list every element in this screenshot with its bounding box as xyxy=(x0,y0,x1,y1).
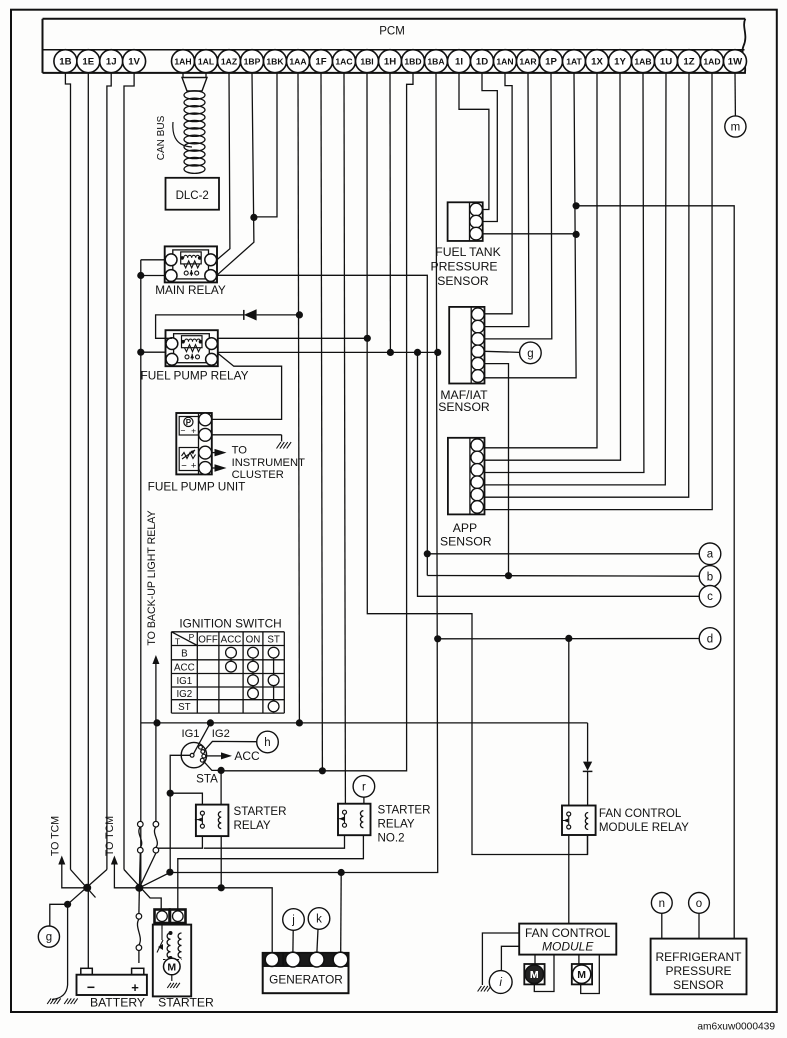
ignition switch contact (IG2/ON) xyxy=(248,688,259,699)
svg-text:SENSOR: SENSOR xyxy=(440,535,492,549)
svg-text:TO TCM: TO TCM xyxy=(50,816,62,856)
wire from pin 1P (to MAF pin3) xyxy=(485,73,552,339)
battery xyxy=(77,975,147,995)
svg-text:1BK: 1BK xyxy=(266,57,284,67)
fuel pump relay output to fuel pump unit xyxy=(212,353,282,419)
pump symbol P xyxy=(184,417,193,426)
relay coil feed from ignition bus via diode xyxy=(587,723,589,762)
starter relay no.2 xyxy=(338,804,371,836)
svg-text:1I: 1I xyxy=(455,57,463,68)
body ground drain xyxy=(67,904,69,985)
starter relay xyxy=(196,805,229,837)
svg-text:1AT: 1AT xyxy=(566,57,582,67)
node j (circled terminal) xyxy=(283,909,305,931)
svg-text:g: g xyxy=(46,932,52,944)
node h (circled terminal) xyxy=(257,731,279,753)
wire from pin 1BP (to main relay switch) xyxy=(217,73,254,275)
node k (circled terminal) xyxy=(308,908,330,930)
1B wire into X1 xyxy=(71,870,96,898)
svg-text:NO.2: NO.2 xyxy=(378,832,405,845)
IG2 line to terminal h xyxy=(204,741,257,750)
wire from pin 1E xyxy=(87,73,89,963)
wire from pin 1AR (to MAF pin2) xyxy=(485,73,529,327)
ignition switch contact (B/ST) xyxy=(268,647,279,658)
svg-text:STARTER: STARTER xyxy=(158,996,214,1010)
switch wiper from bus xyxy=(194,723,211,754)
starter relay switch feed xyxy=(170,793,202,804)
node n (circled terminal) xyxy=(651,893,672,914)
svg-text:DLC-2: DLC-2 xyxy=(176,190,209,202)
PCM pin 1W xyxy=(724,50,747,73)
fuel pump relay switch feed (left) xyxy=(141,351,166,353)
generator xyxy=(263,953,349,993)
PCM pin 1AL xyxy=(195,50,218,73)
svg-text:IG1: IG1 xyxy=(176,676,192,687)
bus continues into X2 xyxy=(139,853,142,884)
PCM pin 1E xyxy=(77,50,100,73)
svg-text:PRESSURE: PRESSURE xyxy=(665,964,731,978)
node b (circled terminal) xyxy=(699,566,721,588)
main fuse (bus) xyxy=(138,821,144,827)
wire from pin 1H xyxy=(389,73,391,353)
PCM pin 1BI xyxy=(356,50,379,73)
svg-text:1AC: 1AC xyxy=(335,57,352,67)
svg-text:TO BACK-UP LIGHT RELAY: TO BACK-UP LIGHT RELAY xyxy=(146,510,158,645)
svg-text:1W: 1W xyxy=(728,57,743,68)
PCM pin 1AA xyxy=(287,50,310,73)
node m (circled terminal) xyxy=(725,116,746,137)
svg-text:g: g xyxy=(527,348,533,360)
svg-text:ACC: ACC xyxy=(174,662,195,673)
wire from pin 1AL xyxy=(205,73,207,78)
PCM pin 1AN xyxy=(494,50,517,73)
svg-text:ACC: ACC xyxy=(221,634,242,645)
node c (circled terminal) xyxy=(699,586,721,608)
svg-text:CLUSTER: CLUSTER xyxy=(232,469,284,481)
diode D1 (back-feed to fuel pump relay) xyxy=(243,310,245,320)
relay switch feed from d line xyxy=(568,638,570,805)
svg-text:FAN CONTROL: FAN CONTROL xyxy=(525,926,611,940)
wire from pin 1BI (to fuel pump relay and fan relay coil) xyxy=(367,73,588,855)
branch to fuel tank sensor pin3 xyxy=(483,233,576,235)
PCM bar torn-edge break (right end) xyxy=(743,19,746,73)
junction 1BI / fuel pump relay xyxy=(364,335,371,342)
svg-text:STA: STA xyxy=(196,772,218,785)
PCM pin 1Y xyxy=(609,50,632,73)
DLC-2 connector xyxy=(166,178,220,210)
svg-text:1AA: 1AA xyxy=(289,57,306,67)
generator pin4 riser xyxy=(340,873,343,953)
svg-text:STARTER: STARTER xyxy=(234,805,287,818)
relay switch output to fan control module xyxy=(568,835,570,924)
branch to refrigerant pressure sensor xyxy=(576,206,734,939)
svg-text:IG2: IG2 xyxy=(212,728,230,740)
wire from pin 1AT (fuel tank pin3 / MAF pin6 / refrigerant sensor) xyxy=(485,73,577,378)
svg-text:1D: 1D xyxy=(476,57,488,68)
ignition switch contact (ACC/ON) xyxy=(248,661,259,672)
svg-text:PRESSURE: PRESSURE xyxy=(430,260,497,274)
svg-text:1AB: 1AB xyxy=(634,57,651,67)
svg-text:B: B xyxy=(181,648,188,659)
svg-text:MODULE: MODULE xyxy=(542,940,594,954)
svg-text:1U: 1U xyxy=(660,57,672,68)
line to terminal c xyxy=(418,352,700,596)
starter motor M xyxy=(164,958,181,975)
wire from pin 1AC (to starter relay no.2) xyxy=(344,73,345,804)
CAN bus twisted pair coil xyxy=(184,91,205,100)
svg-text:1V: 1V xyxy=(128,57,140,68)
svg-text:TO TCM: TO TCM xyxy=(104,816,116,856)
PCM pin 1BP xyxy=(241,50,264,73)
PCM pin 1BA xyxy=(425,50,448,73)
ACC output xyxy=(206,755,221,757)
PCM pin 1AZ xyxy=(218,50,241,73)
ignition switch contact (IG1/ST) xyxy=(268,675,279,686)
wire from pin 1J xyxy=(107,73,111,870)
svg-text:1Y: 1Y xyxy=(614,57,626,68)
PCM pin 1AH xyxy=(172,50,195,73)
svg-text:FUEL PUMP RELAY: FUEL PUMP RELAY xyxy=(141,369,249,383)
STA output xyxy=(204,762,221,771)
fuel pump unit pin (y=419.4) xyxy=(199,413,212,426)
svg-text:1H: 1H xyxy=(384,57,396,68)
wire from pin 1AN (to MAF pin1) xyxy=(485,73,513,314)
main relay output to terminals a/b xyxy=(217,275,427,575)
module ground stub xyxy=(482,933,519,985)
svg-text:ACC: ACC xyxy=(234,749,260,763)
ignition switch contact (ST/ST) xyxy=(268,701,279,712)
svg-text:REFRIGERANT: REFRIGERANT xyxy=(655,950,742,964)
PCM pin 1Z xyxy=(678,50,701,73)
MAF pin5 to terminal b line xyxy=(485,364,509,576)
svg-text:i: i xyxy=(499,977,502,989)
main relay switch feed (left) xyxy=(141,275,165,277)
battery fuse below X2 xyxy=(136,914,142,920)
svg-text:1J: 1J xyxy=(106,57,117,68)
ignition switch contact (IG1/ON) xyxy=(248,675,259,686)
fuel pump unit ground xyxy=(212,434,282,436)
svg-text:+: + xyxy=(191,425,196,435)
svg-text:−: − xyxy=(181,461,187,472)
svg-text:1E: 1E xyxy=(82,57,94,68)
ignition feed line joining X2 xyxy=(155,725,157,822)
junction generator pin4 riser xyxy=(338,869,345,876)
svg-text:SENSOR: SENSOR xyxy=(437,274,489,288)
svg-text:1AH: 1AH xyxy=(174,57,191,67)
fan motor 1 xyxy=(524,964,544,984)
svg-text:ST: ST xyxy=(267,634,280,645)
svg-text:RELAY: RELAY xyxy=(378,818,415,831)
1J wire into X1, branch to g and body ground xyxy=(68,870,107,905)
svg-text:n: n xyxy=(659,898,665,910)
svg-text:CAN BUS: CAN BUS xyxy=(156,115,167,160)
fan control module xyxy=(519,924,616,955)
APP sensor xyxy=(448,438,485,515)
fuel tank pressure sensor xyxy=(448,202,483,241)
svg-text:M: M xyxy=(530,969,539,981)
X junction 2 (battery positive node) xyxy=(135,884,143,892)
wire from pin 1Z (to APP pin5) xyxy=(485,73,690,497)
svg-text:h: h xyxy=(264,737,270,749)
PCM pin 1X xyxy=(586,50,609,73)
relay coil return to 1BI line xyxy=(587,835,589,855)
ignition rotary switch xyxy=(181,742,206,767)
relay no.2 switch output xyxy=(204,835,345,848)
PCM pin 1U xyxy=(655,50,678,73)
wire from pin 1BA (to generator/X junction line) xyxy=(139,73,437,888)
PCM pin 1V xyxy=(123,50,146,73)
node o (circled terminal) xyxy=(689,893,710,914)
svg-text:ST: ST xyxy=(178,702,191,713)
svg-text:k: k xyxy=(316,913,322,925)
svg-text:o: o xyxy=(696,898,702,910)
junction 1AA / ignition bus xyxy=(296,719,303,726)
svg-text:MODULE RELAY: MODULE RELAY xyxy=(599,821,689,834)
main relay coil feed (left) xyxy=(141,259,165,261)
ignition switch contact (B/ON) xyxy=(248,647,259,658)
ignition switch contact (ACC/ACC) xyxy=(226,661,237,672)
svg-text:1AR: 1AR xyxy=(519,57,537,67)
contact link bars xyxy=(231,658,274,701)
svg-text:PCM: PCM xyxy=(379,26,405,38)
svg-text:STARTER: STARTER xyxy=(378,804,431,817)
svg-text:ON: ON xyxy=(246,634,261,645)
svg-text:SENSOR: SENSOR xyxy=(673,978,724,992)
junction 1AA / diode line xyxy=(296,311,303,318)
refrigerant pressure sensor xyxy=(651,939,747,995)
ignition switch contact (B/ACC) xyxy=(226,647,237,658)
svg-text:1B: 1B xyxy=(59,57,71,68)
svg-text:1AN: 1AN xyxy=(496,57,513,67)
svg-text:FUEL TANK: FUEL TANK xyxy=(435,245,500,259)
X2 east line to generator B+ xyxy=(139,888,272,953)
CAN bus twist indicator arc xyxy=(173,122,192,147)
svg-text:IGNITION SWITCH: IGNITION SWITCH xyxy=(179,616,281,630)
svg-text:MAIN RELAY: MAIN RELAY xyxy=(155,283,226,297)
svg-text:−: − xyxy=(87,979,95,995)
fuel pump unit pin (y=452.6) xyxy=(199,446,212,459)
junction 1BP/1BK xyxy=(250,214,257,221)
svg-text:SENSOR: SENSOR xyxy=(438,400,490,414)
node d (circled terminal) xyxy=(699,628,721,650)
starter solenoid coils xyxy=(167,933,170,958)
PCM pin 1AT xyxy=(563,50,586,73)
svg-text:APP: APP xyxy=(453,521,477,535)
fuel pump unit pin (y=434.8) xyxy=(199,428,212,441)
svg-text:FUEL PUMP UNIT: FUEL PUMP UNIT xyxy=(148,479,246,493)
svg-text:OFF: OFF xyxy=(198,634,218,645)
svg-text:m: m xyxy=(731,121,741,133)
starter relay switch output xyxy=(156,836,203,848)
svg-text:a: a xyxy=(707,549,714,561)
svg-text:GENERATOR: GENERATOR xyxy=(269,973,343,987)
wire from pin 1AB (to APP pin3) xyxy=(485,73,644,473)
wire from pin 1BK xyxy=(254,73,277,217)
node g (circled terminal) xyxy=(38,926,59,947)
wire from pin 1X (to APP pin1) xyxy=(485,73,598,448)
PCM pin 1BD xyxy=(402,50,425,73)
svg-text:1BA: 1BA xyxy=(427,57,444,67)
PCM pin 1B xyxy=(54,50,77,73)
ignition feed fuse xyxy=(153,821,159,827)
PCM pin 1AB xyxy=(632,50,655,73)
svg-text:j: j xyxy=(291,914,295,926)
svg-text:TO: TO xyxy=(232,445,248,457)
PCM pin 1D xyxy=(471,50,494,73)
svg-text:M: M xyxy=(167,962,176,974)
PCM pin 1BK xyxy=(264,50,287,73)
main relay xyxy=(165,246,217,282)
wire from pin 1B xyxy=(65,73,70,870)
fuel pump unit xyxy=(176,413,212,474)
svg-text:b: b xyxy=(707,571,713,583)
diode D2 xyxy=(583,762,592,771)
module sense line to terminal i xyxy=(501,946,519,970)
line to terminal d (via 1BA vertical) xyxy=(438,638,700,640)
node a (circled terminal) xyxy=(699,543,721,565)
wire from pin 1Y (to APP pin2) xyxy=(485,73,621,460)
svg-text:+: + xyxy=(191,461,197,472)
PCM pin 1I xyxy=(448,50,471,73)
node r (circled terminal) xyxy=(353,776,375,798)
svg-text:1AZ: 1AZ xyxy=(221,57,237,67)
svg-text:1BP: 1BP xyxy=(244,57,261,67)
fuel pump relay xyxy=(166,330,218,366)
svg-text:IG2: IG2 xyxy=(176,689,192,700)
fuel pump unit pin (y=468.0) xyxy=(199,462,212,475)
branch to terminal g (ground point) xyxy=(50,904,68,926)
wire from pin 1D (to fuel tank pressure sensor pin2) xyxy=(482,73,497,222)
svg-text:M: M xyxy=(577,969,586,981)
line to terminal a xyxy=(427,553,699,555)
wire from pin 1F (to STA line) xyxy=(321,73,322,771)
PCM pin 1J xyxy=(100,50,123,73)
wire from pin 1V xyxy=(124,73,134,870)
relay no.2 coil return to starter xyxy=(178,835,364,909)
PCM pin 1F xyxy=(310,50,333,73)
node i (circled terminal) xyxy=(489,971,512,994)
svg-text:am6xuw0000439: am6xuw0000439 xyxy=(697,1022,775,1033)
fan control module relay xyxy=(562,806,596,836)
wire from pin 1BD (to STA line) xyxy=(221,73,413,771)
wire from pin 1AD (to APP pin6) xyxy=(485,73,713,510)
svg-text:P: P xyxy=(189,632,195,642)
svg-text:−: − xyxy=(181,425,186,435)
wire from pin 1AA (to ignition switch bus) xyxy=(298,73,299,723)
starter relay coil feed from STA xyxy=(220,770,222,804)
wire from pin 1AH xyxy=(182,73,184,78)
B+ bus vertical (left) xyxy=(140,260,142,888)
svg-text:r: r xyxy=(362,781,366,793)
svg-text:1AL: 1AL xyxy=(198,57,214,67)
1V wire into X2 and on to starter S terminal xyxy=(124,870,161,910)
MAF pin4 to terminal g xyxy=(485,351,520,352)
svg-text:d: d xyxy=(707,633,713,645)
fan motor 2 xyxy=(572,964,592,984)
fuel pump relay output line (1H, c, 1BA) xyxy=(218,351,438,353)
wire from pin 1U (to APP pin4) xyxy=(485,73,667,485)
starter relay coil return xyxy=(220,836,222,888)
wire from pin 1AZ (to main relay coil) xyxy=(217,73,230,260)
fuel pump relay pin to 1BI xyxy=(218,337,367,339)
svg-text:T: T xyxy=(175,637,180,647)
fuel pump relay coil feed via diode xyxy=(156,315,244,338)
svg-text:RELAY: RELAY xyxy=(234,819,271,832)
starter motor assembly xyxy=(155,910,170,924)
svg-text:1AD: 1AD xyxy=(703,57,720,67)
PCM pin 1H xyxy=(379,50,402,73)
PCM pin 1AD xyxy=(701,50,724,73)
X junction 1 (battery negative node) xyxy=(83,884,91,892)
svg-text:1F: 1F xyxy=(315,57,326,68)
svg-text:1BD: 1BD xyxy=(404,57,421,67)
svg-text:1Z: 1Z xyxy=(683,57,694,68)
PCM pin 1AC xyxy=(333,50,356,73)
svg-text:BATTERY: BATTERY xyxy=(90,996,145,1010)
junction ignition feed riser xyxy=(166,869,173,876)
PCM pin 1P xyxy=(540,50,563,73)
svg-text:1X: 1X xyxy=(591,57,603,68)
ignition switch battery feed xyxy=(170,755,190,872)
PCM pin 1AR xyxy=(517,50,540,73)
svg-text:INSTRUMENT: INSTRUMENT xyxy=(232,457,306,469)
node g (circled terminal) xyxy=(520,342,542,364)
wire from pin 1W to terminal m xyxy=(734,73,736,116)
svg-text:IG1: IG1 xyxy=(181,728,199,740)
svg-text:FAN CONTROL: FAN CONTROL xyxy=(599,807,682,820)
line to terminal b xyxy=(427,575,699,578)
ignition feed bus (horizontal) xyxy=(141,722,588,724)
svg-text:1BI: 1BI xyxy=(360,57,373,67)
svg-text:1P: 1P xyxy=(545,57,557,68)
svg-text:c: c xyxy=(707,591,713,603)
MAF/IAT sensor xyxy=(449,307,484,384)
arrows to instrument cluster xyxy=(212,452,215,454)
svg-text:+: + xyxy=(131,980,139,995)
PCM module connector bar xyxy=(43,18,746,20)
CAN bus connector funnel xyxy=(182,78,207,92)
fuel gauge sender resistor xyxy=(182,453,196,459)
wire from pin 1I (to fuel tank pressure sensor pin1) xyxy=(459,73,489,210)
